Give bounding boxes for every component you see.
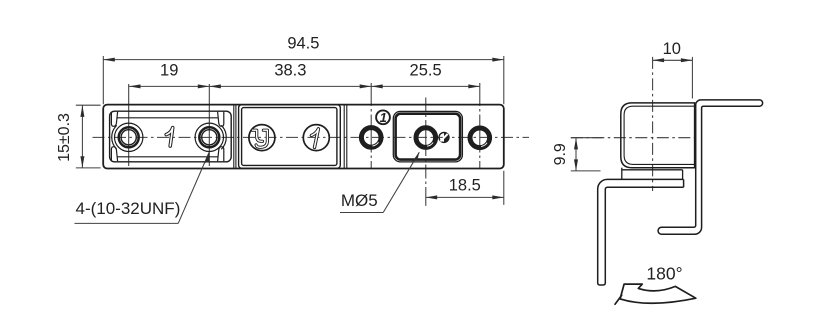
svg-text:4-(10-32UNF): 4-(10-32UNF)	[76, 199, 181, 218]
block2 inner outline	[242, 108, 337, 166]
hole 1 horseshoe	[112, 125, 117, 149]
centerline hole B	[425, 98, 427, 206]
bracket flipped plate and leg	[598, 179, 684, 285]
bracket foot tip cap	[658, 227, 661, 234]
svg-text:18.5: 18.5	[449, 176, 481, 194]
centerline horizontal (left view)	[93, 136, 530, 138]
label 4-(10-32UNF) leader	[75, 153, 210, 224]
svg-text:10: 10	[663, 40, 681, 58]
hole 2 horseshoe	[221, 125, 226, 149]
bracket flange tip cap	[760, 100, 763, 106]
rail plate narrow	[622, 168, 683, 180]
separator strip 1	[234, 105, 236, 169]
dimension 9.9	[571, 138, 603, 171]
svg-text:9.9: 9.9	[552, 143, 569, 165]
centerline hole1	[128, 84, 130, 166]
circled index 1 marker	[376, 110, 390, 125]
block1 outline	[110, 111, 232, 162]
square boss inner	[396, 114, 461, 160]
rotation arrow left barb	[615, 295, 622, 304]
switch body side inner	[624, 106, 695, 164]
body outline	[103, 105, 504, 169]
svg-text:MØ5: MØ5	[341, 191, 378, 210]
hole 1	[115, 123, 143, 151]
set screw	[439, 132, 449, 142]
marking digit 1 on block1	[166, 128, 173, 146]
bracket Z outer face	[662, 100, 760, 227]
block1 bottom bar	[111, 147, 223, 162]
hole 2	[195, 123, 223, 151]
marking circled y	[249, 125, 275, 151]
svg-text:94.5: 94.5	[287, 35, 319, 53]
svg-text:19: 19	[160, 62, 178, 80]
hole C	[470, 128, 490, 148]
dimension 18.5	[426, 171, 504, 205]
centerline hole2	[208, 84, 210, 166]
dimension 19 / 38.3 / 25.5	[129, 85, 480, 87]
separator strip 2	[344, 105, 347, 169]
svg-text:38.3: 38.3	[274, 62, 306, 80]
block1 top bar	[111, 112, 223, 127]
dimension 94.5	[103, 56, 504, 104]
switch body side outer	[621, 103, 695, 168]
block2 outer outline	[239, 105, 341, 169]
centerline horizontal (side view)	[571, 137, 700, 139]
svg-text:25.5: 25.5	[410, 62, 442, 80]
rotation arrow	[620, 284, 696, 303]
centerline hole C	[479, 83, 481, 169]
label M dia 5 leader	[340, 152, 419, 212]
svg-text:180°: 180°	[646, 263, 682, 283]
bracket Z inner face	[662, 106, 760, 234]
marking circled 1	[303, 125, 329, 151]
dimension 10	[653, 57, 693, 99]
centerline vertical (side view)	[652, 57, 654, 191]
svg-text:15±0.3: 15±0.3	[56, 113, 73, 162]
hole A	[361, 128, 381, 148]
svg-text:1: 1	[380, 110, 387, 125]
dimension 15 +/- 0.3	[76, 105, 101, 168]
centerline hole A	[370, 83, 372, 169]
square boss outer	[393, 111, 462, 161]
hole B	[416, 128, 436, 148]
